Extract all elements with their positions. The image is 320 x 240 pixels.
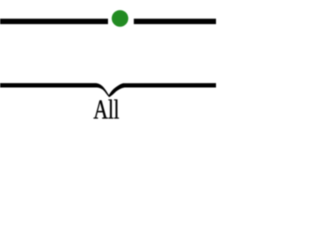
wire: number line left segment (0, 19, 108, 24)
node: green point on line (112, 10, 129, 27)
wire: number line right segment (134, 19, 216, 24)
brace: underbrace spanning full width, cusp pointing down (0, 83, 216, 97)
label: All (94, 99, 119, 118)
